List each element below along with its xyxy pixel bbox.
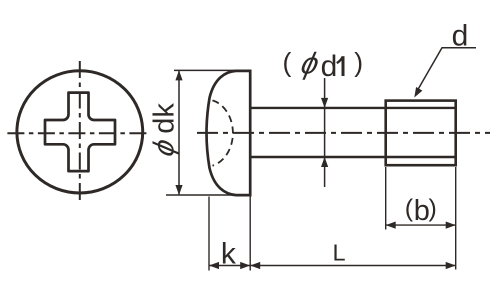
svg-text:d: d <box>452 20 469 53</box>
svg-text:dk: dk <box>149 103 181 134</box>
svg-text:d: d <box>321 50 338 83</box>
svg-text:ϕ: ϕ <box>148 136 181 160</box>
svg-text:ϕ: ϕ <box>298 47 322 81</box>
svg-text:k: k <box>221 237 237 270</box>
svg-text:(b): (b) <box>405 195 437 227</box>
svg-text:(: ( <box>283 48 292 78</box>
svg-text:): ) <box>354 48 363 78</box>
svg-text:L: L <box>332 239 345 265</box>
